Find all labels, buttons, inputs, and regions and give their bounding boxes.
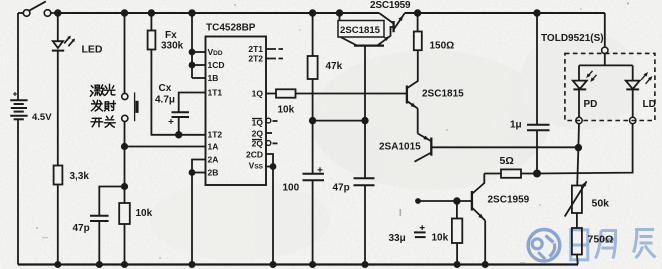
char 光 — [104, 84, 115, 95]
watermark char 日 — [571, 230, 588, 260]
svg-text:1CD: 1CD — [208, 60, 225, 70]
node: Cx/Fx/1T2 junction — [176, 132, 182, 138]
resistor 750ohm — [572, 228, 582, 255]
node: LED bottom — [55, 262, 60, 267]
IC pin labels right — [246, 44, 264, 171]
node: Q-pair collector rail junction — [337, 10, 343, 16]
switch S — [23, 10, 30, 17]
svg-text:50k: 50k — [592, 198, 610, 210]
svg-text:LED: LED — [82, 44, 103, 56]
svg-text:PD: PD — [584, 99, 598, 110]
wire Vss pin — [266, 166, 273, 168]
svg-text:2SC1959: 2SC1959 — [370, 0, 411, 11]
char 射 — [105, 101, 116, 111]
resistor 5ohm — [484, 173, 501, 175]
svg-text:1T2: 1T2 — [208, 130, 223, 140]
wire 1CD pin — [192, 64, 206, 66]
capacitor 100u — [303, 173, 325, 175]
transistor Q1815b — [406, 86, 408, 104]
wire 2CD pin — [266, 154, 273, 265]
pin stub 2Q — [266, 132, 272, 134]
pin bubble 1Q-bar — [266, 118, 271, 123]
TOLD9521 module dashed box — [604, 13, 606, 47]
node: VDD rail junction — [189, 10, 195, 16]
svg-text:10k: 10k — [136, 208, 153, 219]
wire VDD pin — [192, 51, 206, 53]
svg-text:1Q: 1Q — [252, 89, 264, 99]
svg-text:47p: 47p — [333, 183, 350, 194]
svg-text:47p: 47p — [73, 223, 90, 234]
wire PD to divider — [577, 124, 579, 186]
svg-text:TOLD9521(S): TOLD9521(S) — [541, 33, 604, 44]
wire 1T1 pin to Cx — [179, 93, 206, 113]
svg-text:LD: LD — [643, 99, 656, 110]
svg-text:2T1: 2T1 — [248, 44, 263, 54]
svg-text:10k: 10k — [278, 105, 295, 116]
svg-text:4.7μ: 4.7μ — [155, 95, 175, 106]
resistor Fx 330k — [149, 10, 155, 16]
svg-text:33μ: 33μ — [389, 233, 406, 244]
char 开 — [91, 118, 103, 127]
watermark char 月 — [596, 231, 616, 259]
resistor 10k (button) — [124, 187, 126, 204]
svg-text:1μ: 1μ — [510, 120, 522, 131]
pushbutton SB — [124, 13, 126, 94]
wire to LD cathode — [537, 124, 633, 174]
capacitor 1u — [534, 10, 540, 16]
svg-text:10k: 10k — [432, 233, 449, 244]
potentiometer 50k — [572, 186, 582, 214]
char 激 — [90, 85, 104, 96]
svg-text:2T2: 2T2 — [248, 54, 263, 64]
pin bubble 2Q-bar — [266, 141, 271, 146]
svg-text:1T1: 1T1 — [208, 88, 223, 98]
char 关 — [104, 116, 115, 127]
wire 1B pin — [192, 77, 206, 79]
wire Q-pair base column — [364, 46, 366, 179]
svg-text:2A: 2A — [208, 155, 219, 165]
resistor 10k (right) — [456, 201, 458, 219]
svg-text:2SC1959: 2SC1959 — [488, 195, 530, 206]
pin stub 2T1 — [266, 48, 283, 50]
wire: top rail right segment — [405, 12, 605, 14]
laser diode LD — [632, 65, 634, 80]
wire: bottom rail — [18, 263, 578, 265]
svg-text:2Q: 2Q — [252, 129, 264, 139]
svg-text:2SC1815: 2SC1815 — [422, 89, 464, 100]
svg-text:Cx: Cx — [159, 83, 172, 94]
transistor Q1815a (boxed label) — [338, 21, 384, 38]
svg-text:2SA1015: 2SA1015 — [379, 142, 421, 153]
transistor Q1959b — [472, 174, 484, 194]
svg-text:4.5V: 4.5V — [32, 112, 52, 123]
battery B 4.5V — [10, 99, 27, 101]
svg-text:TC4528BP: TC4528BP — [206, 23, 256, 34]
wire: top rail left segment — [58, 12, 380, 14]
node: button/1A junction — [122, 144, 127, 149]
resistor 3.3k — [54, 166, 63, 185]
resistor 150ohm — [415, 10, 421, 16]
svg-text:Fx: Fx — [165, 30, 177, 41]
watermark char 辰 — [634, 230, 656, 259]
LED D1 — [57, 13, 59, 41]
node: top rail left junction — [55, 10, 61, 16]
svg-text:100: 100 — [283, 183, 300, 194]
svg-text:47k: 47k — [326, 61, 343, 72]
photodiode PD — [578, 65, 580, 80]
IC pin labels left — [208, 47, 225, 178]
text 激光发射开关 hand-drawn — [90, 84, 115, 127]
node: base/10k junction — [454, 198, 460, 204]
svg-text:750Ω: 750Ω — [588, 234, 614, 246]
pin stub 2T2 — [266, 58, 283, 60]
node: 47p branch — [122, 184, 127, 189]
svg-text:1A: 1A — [208, 142, 219, 152]
resistor 47k — [310, 10, 316, 16]
svg-text:1B: 1B — [208, 73, 219, 83]
IC U1 TC4528BP — [206, 37, 267, 186]
transistor Q2SA1015 — [418, 134, 431, 141]
capacitor Cx 4.7u — [172, 111, 190, 113]
wire 1Q to 10k — [266, 93, 276, 95]
left supply wire — [17, 13, 19, 100]
svg-text:330k: 330k — [161, 41, 184, 52]
svg-text:2CD: 2CD — [246, 150, 263, 160]
svg-text:3,3k: 3,3k — [70, 171, 90, 182]
resistor 10k (1Q) — [276, 89, 296, 97]
svg-text:2SC1815: 2SC1815 — [340, 25, 381, 36]
capacitor 33u — [414, 231, 426, 233]
node: 47k/base-wire branch — [310, 118, 316, 124]
wire 2B pin — [192, 172, 206, 174]
svg-text:150Ω: 150Ω — [430, 41, 455, 52]
wire to 1A pin — [125, 146, 206, 148]
capacitor 47p (left) — [90, 215, 109, 217]
svg-text:5Ω: 5Ω — [500, 155, 514, 167]
wire branch to Q-pair base — [313, 120, 365, 122]
watermark logo circle — [528, 230, 560, 262]
node: 5ohm output — [534, 170, 540, 176]
svg-text:2B: 2B — [208, 168, 219, 178]
wire 2A pin — [192, 160, 206, 265]
char 发 — [91, 100, 102, 111]
transistor Q1959a (top) — [392, 21, 394, 32]
capacitor 47p (mid) — [354, 177, 375, 179]
